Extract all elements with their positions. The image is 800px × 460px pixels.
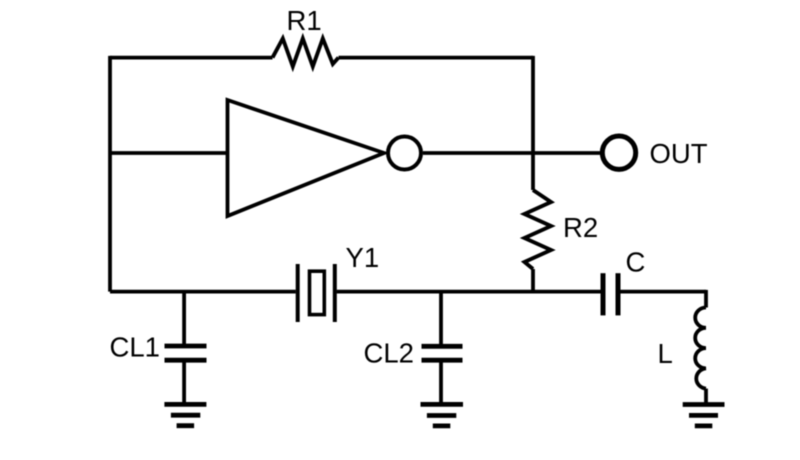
inductor L xyxy=(695,308,706,389)
wire CL1 drop xyxy=(182,292,186,344)
wire bottom rail left xyxy=(110,290,296,294)
wire left rail xyxy=(108,56,112,292)
svg-text:CL1: CL1 xyxy=(110,332,160,363)
svg-text:Y1: Y1 xyxy=(346,242,380,273)
op-amp U1 inverter triangle xyxy=(228,100,385,216)
wire corner down to inductor xyxy=(704,290,708,308)
resistor R1 xyxy=(273,39,339,67)
capacitor CL2 xyxy=(422,346,463,360)
wire right rail top xyxy=(531,56,535,190)
wire R1 to top-right corner xyxy=(339,56,534,60)
ground under CL1 xyxy=(164,404,206,425)
wire inductor to ground xyxy=(704,389,708,405)
wire inverter input xyxy=(110,151,229,155)
wire CL2 to ground xyxy=(439,362,443,405)
wire bottom rail middle xyxy=(337,290,601,294)
wire top-left to R1 xyxy=(110,56,273,60)
resistor R2 xyxy=(525,190,552,269)
ground under L xyxy=(683,405,725,426)
ground under CL2 xyxy=(421,404,464,426)
svg-text:CL2: CL2 xyxy=(364,338,414,369)
svg-text:L: L xyxy=(658,338,673,369)
wire inverter output xyxy=(423,151,601,155)
capacitor C xyxy=(603,273,618,315)
svg-text:OUT: OUT xyxy=(650,138,708,169)
wire R2 bottom xyxy=(531,269,535,292)
wire CL2 drop xyxy=(439,292,443,344)
wire CL1 to ground xyxy=(182,362,186,405)
crystal Y1 xyxy=(298,264,335,322)
svg-text:R1: R1 xyxy=(287,5,322,36)
svg-text:C: C xyxy=(626,247,646,278)
inverter output bubble xyxy=(388,137,421,170)
wire bottom rail right xyxy=(620,290,706,294)
terminal OUT circle xyxy=(602,136,635,169)
svg-text:R2: R2 xyxy=(563,212,598,243)
capacitor CL1 xyxy=(165,346,207,360)
